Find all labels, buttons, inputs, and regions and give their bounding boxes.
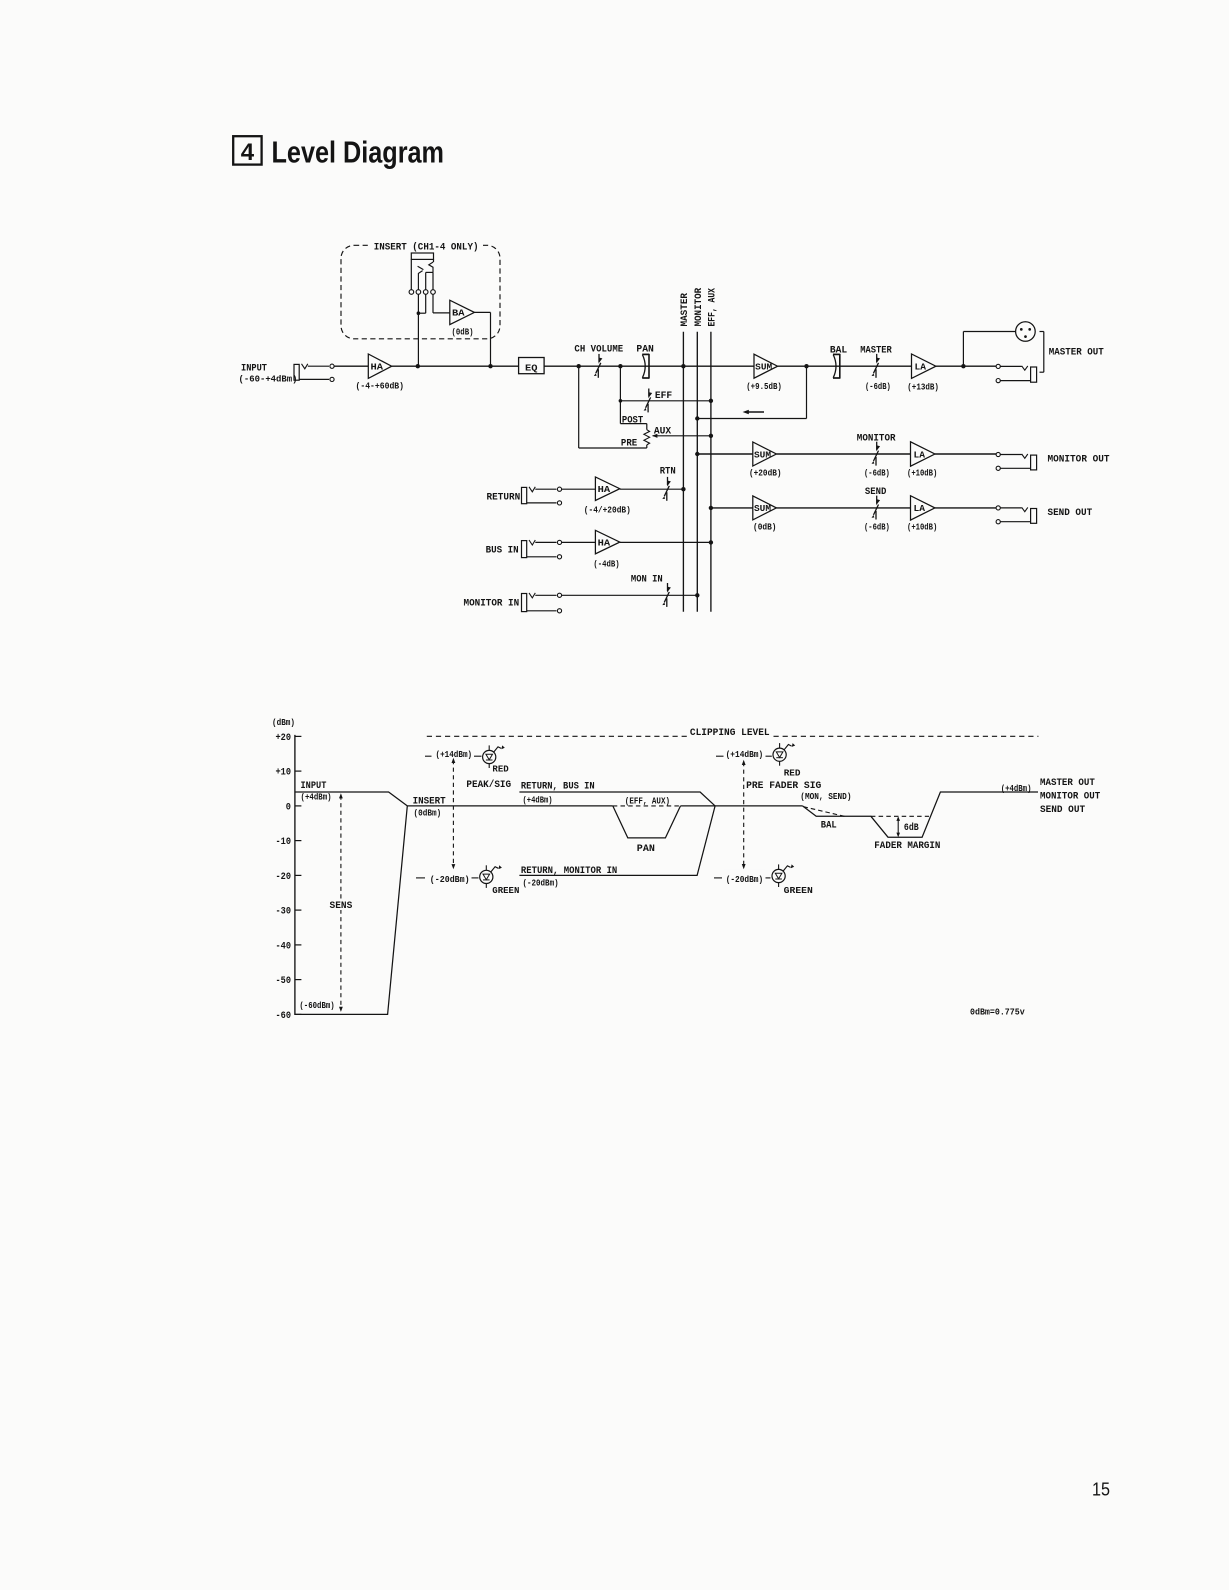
- svg-text:LA: LA: [914, 449, 926, 460]
- node BA return tap: [488, 364, 492, 368]
- svg-text:SEND OUT: SEND OUT: [1048, 508, 1093, 519]
- wire return jack to HA2: [562, 488, 596, 490]
- wire sum2 to monitor fader: [776, 453, 910, 455]
- svg-text:(MON, SEND): (MON, SEND): [800, 792, 851, 802]
- title section number box [4]: [233, 136, 261, 164]
- node monitor in to monitor bus: [695, 593, 699, 597]
- trace RETURN BUS IN +4dBm: [519, 792, 715, 806]
- arrow PRE FADER SIG dashed range: [743, 762, 745, 867]
- pan pot symbol: [642, 355, 645, 378]
- axis tick -20: [295, 874, 302, 876]
- svg-text:RED: RED: [492, 764, 509, 775]
- jack J MONITOR IN: [522, 594, 527, 612]
- wire up to XLR: [962, 332, 964, 367]
- svg-text:PRE FADER SIG: PRE FADER SIG: [746, 781, 821, 792]
- wire AUX wiper to bus: [653, 435, 711, 437]
- svg-text:MASTER OUT: MASTER OUT: [1040, 778, 1095, 789]
- jack J monitor out: [996, 452, 1000, 456]
- op-amp LA1 master line amp: [912, 354, 936, 378]
- node monitor bus to sum2: [695, 452, 699, 456]
- wire BA output down to channel: [474, 311, 490, 313]
- svg-text:(+20dB): (+20dB): [749, 468, 782, 478]
- wire insert send contacts to channel: [417, 294, 419, 366]
- arrow PEAK/SIG dashed range: [452, 760, 454, 867]
- node return to master bus: [681, 487, 685, 491]
- svg-text:4: 4: [241, 139, 255, 166]
- node insert send junction: [417, 311, 421, 315]
- wire sum1 to master fader: [778, 365, 912, 367]
- pot EFF attenuator: [648, 389, 650, 397]
- svg-text:(+10dB): (+10dB): [907, 523, 937, 533]
- svg-text:MASTER: MASTER: [680, 292, 691, 326]
- svg-text:EFF: EFF: [655, 391, 672, 402]
- dashed -20dBm level left: [416, 877, 425, 879]
- axis tick -60: [295, 1013, 302, 1015]
- bus MASTER vertical: [682, 332, 684, 612]
- bracket master out group: [1043, 332, 1045, 373]
- jack J1 INPUT: [294, 364, 299, 380]
- label (-20dBm) right: [724, 870, 766, 880]
- svg-text:CH VOLUME: CH VOLUME: [574, 344, 623, 355]
- svg-text:INSERT (CH1-4 ONLY): INSERT (CH1-4 ONLY): [374, 242, 479, 254]
- svg-text:(0dB): (0dB): [452, 328, 474, 338]
- svg-text:(EFF, AUX): (EFF, AUX): [625, 797, 670, 807]
- node eff aux bus to sum3: [709, 506, 713, 510]
- svg-text:PEAK/SIG: PEAK/SIG: [466, 779, 511, 791]
- svg-text:CLIPPING LEVEL: CLIPPING LEVEL: [690, 728, 770, 739]
- svg-text:RETURN: RETURN: [487, 492, 521, 503]
- svg-text:-50: -50: [276, 976, 292, 987]
- svg-text:-60: -60: [276, 1011, 292, 1022]
- svg-text:SEND: SEND: [865, 487, 887, 498]
- wire eff aux bus to sum3: [711, 507, 753, 509]
- svg-text:+10: +10: [276, 768, 292, 779]
- svg-text:(+4dBm): (+4dBm): [523, 795, 553, 805]
- fader MASTER attenuator: [876, 354, 878, 362]
- wire loop left leg to contact 1: [410, 259, 412, 289]
- svg-text:(-20dBm): (-20dBm): [523, 879, 559, 889]
- svg-text:-20: -20: [276, 872, 292, 883]
- axis tick 0: [295, 805, 302, 807]
- jack J master out phone: [996, 364, 1000, 368]
- svg-text:SEND OUT: SEND OUT: [1040, 805, 1085, 816]
- chart y axis: [294, 735, 296, 1015]
- jack contact circles of insert jack: [409, 290, 414, 295]
- trace BAL drop and fader margin dip: [803, 792, 1039, 837]
- svg-text:+20: +20: [276, 733, 292, 744]
- insert switch contact strokes: [433, 259, 435, 262]
- jack J BUS IN: [522, 541, 527, 558]
- svg-text:(+4dBm): (+4dBm): [301, 792, 332, 802]
- resistor AUX pot: [644, 430, 650, 445]
- svg-text:-10: -10: [276, 837, 292, 848]
- wire input to HA: [334, 365, 368, 367]
- svg-text:(-4-+60dB): (-4-+60dB): [356, 382, 405, 392]
- svg-text:(-4dB): (-4dB): [593, 559, 619, 569]
- node post-fader tap: [618, 364, 622, 368]
- label (EFF, AUX): [623, 794, 673, 804]
- insert loop dashed box: [341, 245, 500, 338]
- svg-text:(-6dB): (-6dB): [865, 382, 891, 392]
- op-amp HA2 return amp: [595, 477, 619, 501]
- dashed EFF AUX 0dBm segment: [613, 805, 681, 807]
- wire PRE line: [578, 366, 580, 448]
- svg-text:PAN: PAN: [637, 844, 655, 855]
- svg-text:GREEN: GREEN: [492, 885, 519, 896]
- bus MONITOR vertical: [696, 332, 698, 612]
- svg-text:(+10dB): (+10dB): [907, 469, 937, 479]
- svg-text:-40: -40: [276, 941, 292, 952]
- axis tick -50: [295, 979, 302, 981]
- wire LA2 to monitor out jack: [935, 453, 996, 455]
- dashed clipping level line: [427, 735, 687, 737]
- svg-text:(+13dB): (+13dB): [907, 382, 939, 392]
- op-amp HA3 bus in amp: [595, 530, 619, 554]
- wire HA2 to RTN pot: [620, 488, 684, 490]
- svg-text:MONITOR OUT: MONITOR OUT: [1048, 455, 1110, 466]
- svg-text:BUS IN: BUS IN: [486, 546, 519, 557]
- svg-text:EQ: EQ: [525, 362, 538, 373]
- wire pre fader signal to monitor bus: [806, 366, 808, 418]
- arrow SENS range dashed: [340, 796, 342, 1010]
- node master out tap: [961, 364, 965, 368]
- fader CH VOLUME attenuator: [598, 354, 600, 362]
- op-amp BA1 insert return buffer: [450, 300, 475, 324]
- axis tick -40: [295, 944, 302, 946]
- dashed -20dBm level right: [714, 877, 722, 879]
- svg-text:PRE: PRE: [621, 439, 637, 450]
- svg-text:(-6dB): (-6dB): [864, 523, 890, 533]
- svg-text:SUM: SUM: [755, 362, 772, 373]
- svg-text:(+14dBm): (+14dBm): [436, 750, 473, 760]
- op-amp HA1 head amp: [368, 354, 391, 378]
- wire insert return contact to BA: [432, 294, 434, 313]
- svg-text:INPUT: INPUT: [301, 781, 327, 792]
- fader SEND attenuator: [876, 496, 878, 504]
- dashed MON SEND bypass: [804, 807, 847, 817]
- svg-text:(-60-+4dBm): (-60-+4dBm): [239, 374, 298, 384]
- svg-text:SUM: SUM: [754, 449, 771, 460]
- axis tick +20: [295, 735, 302, 737]
- op-amp SUM2 monitor sum: [753, 442, 777, 466]
- svg-text:(+4dBm): (+4dBm): [1001, 784, 1032, 794]
- axis tick +10: [295, 770, 302, 772]
- svg-text:BAL: BAL: [821, 821, 837, 832]
- wire bus in jack to HA3: [562, 541, 596, 543]
- svg-text:-30: -30: [276, 907, 292, 918]
- jack J send out: [996, 506, 1000, 510]
- wire sum3 to send fader: [776, 507, 910, 509]
- dashed +14dBm level right: [716, 755, 724, 757]
- svg-text:MON IN: MON IN: [631, 575, 663, 586]
- node pre-fader tap: [577, 364, 581, 368]
- svg-text:MONITOR: MONITOR: [694, 287, 705, 326]
- label (-20dBm) left: [428, 870, 472, 880]
- label (+14dBm) right: [724, 748, 766, 758]
- arrow signal direction left: [747, 411, 764, 413]
- op-amp LA3 send line amp: [911, 496, 935, 520]
- svg-text:0: 0: [286, 802, 291, 813]
- svg-text:SUM: SUM: [754, 503, 771, 514]
- trace RETURN MONITOR IN -20dBm: [519, 806, 715, 876]
- wire eff send to bus: [620, 400, 711, 402]
- svg-text:(-20dBm): (-20dBm): [726, 875, 764, 885]
- svg-text:RED: RED: [784, 767, 801, 778]
- label (+14dBm) left: [434, 748, 474, 758]
- wire post fader down to eff send: [619, 366, 621, 423]
- LED D3 RED pre fader: [779, 743, 781, 748]
- balance pot symbol BAL: [833, 355, 836, 378]
- insert tip-ring loop bar: [411, 253, 433, 259]
- svg-text:HA: HA: [371, 362, 384, 373]
- block EQ: [519, 358, 545, 374]
- LED D4 GREEN pre fader: [778, 864, 780, 869]
- svg-text:GREEN: GREEN: [784, 885, 813, 896]
- wire HA3 to eff aux bus: [620, 541, 711, 543]
- trace input max level +4dBm: [295, 792, 407, 806]
- node insert send tap: [416, 364, 420, 368]
- wire monitor bus to sum2: [697, 453, 753, 455]
- node aux to eff aux bus: [709, 434, 713, 438]
- op-amp SUM1 master sum: [754, 354, 778, 378]
- svg-text:RETURN, BUS IN: RETURN, BUS IN: [521, 782, 595, 793]
- svg-text:RTN: RTN: [660, 467, 676, 478]
- pot RTN attenuator: [667, 477, 669, 485]
- svg-text:6dB: 6dB: [904, 822, 919, 834]
- svg-text:(0dBm): (0dBm): [414, 809, 442, 819]
- trace 0dBm to BAL: [681, 805, 803, 807]
- svg-text:15: 15: [1092, 1478, 1110, 1499]
- svg-text:HA: HA: [598, 484, 611, 495]
- LED D2 GREEN signal: [485, 865, 487, 870]
- wire LA1 to outputs: [936, 365, 996, 367]
- pot MON IN attenuator: [667, 583, 669, 591]
- svg-text:LA: LA: [914, 503, 926, 514]
- svg-text:(+14dBm): (+14dBm): [726, 750, 764, 760]
- node pre master fader tap: [804, 364, 808, 368]
- svg-text:INPUT: INPUT: [241, 364, 267, 375]
- svg-text:0dBm=0.775v: 0dBm=0.775v: [970, 1007, 1025, 1018]
- svg-text:POST: POST: [622, 416, 643, 427]
- LED D1 RED peak: [488, 745, 490, 750]
- node channel to master bus: [681, 364, 685, 368]
- node eff tap: [619, 399, 623, 403]
- svg-text:BA: BA: [452, 308, 465, 319]
- svg-text:HA: HA: [598, 537, 611, 548]
- axis tick -10: [295, 840, 302, 842]
- svg-text:FADER MARGIN: FADER MARGIN: [874, 841, 940, 852]
- fader MONITOR attenuator: [876, 442, 878, 450]
- op-amp LA2 monitor line amp: [911, 442, 935, 466]
- trace channel 0dBm: [407, 805, 613, 807]
- svg-text:Level Diagram: Level Diagram: [272, 134, 445, 169]
- svg-text:MONITOR OUT: MONITOR OUT: [1040, 791, 1100, 802]
- dashed +14dBm level left: [425, 755, 432, 757]
- svg-text:EFF, AUX: EFF, AUX: [708, 287, 719, 326]
- svg-text:LA: LA: [915, 362, 927, 373]
- svg-text:(-20dBm): (-20dBm): [430, 875, 470, 885]
- svg-text:(dBm): (dBm): [272, 718, 295, 728]
- svg-text:MONITOR IN: MONITOR IN: [464, 599, 520, 610]
- node eff to eff aux bus: [709, 399, 713, 403]
- wire EQ to fader: [544, 365, 683, 367]
- trace PAN dip -10dB: [613, 806, 681, 838]
- jack J RETURN: [522, 487, 527, 503]
- op-amp SUM3 send sum: [753, 496, 777, 520]
- wire HA1 to EQ: [392, 365, 519, 367]
- switch POST arm: [620, 423, 646, 425]
- svg-text:(0dB): (0dB): [753, 523, 777, 533]
- node pre fader sig to monitor bus: [695, 416, 699, 420]
- svg-text:(-60dBm): (-60dBm): [299, 1001, 334, 1011]
- wire LA3 to send out jack: [935, 507, 996, 509]
- svg-text:SENS: SENS: [330, 901, 353, 912]
- svg-text:MASTER OUT: MASTER OUT: [1049, 348, 1104, 359]
- svg-text:(+9.5dB): (+9.5dB): [746, 382, 782, 392]
- trace input min level -60dBm: [295, 806, 407, 1015]
- svg-text:(-4/+20dB): (-4/+20dB): [584, 505, 631, 515]
- wire channel across buses to master sum: [683, 365, 754, 367]
- svg-text:(-6dB): (-6dB): [864, 468, 890, 478]
- arrow aux wiper: [652, 434, 657, 438]
- arrow 6dB fader margin: [897, 818, 899, 835]
- connector XLR master out: [1016, 322, 1036, 342]
- node bus in to eff aux bus: [709, 540, 713, 544]
- axis tick -30: [295, 909, 302, 911]
- bus EFF AUX vertical: [710, 332, 712, 612]
- wire below aux pot to pre line: [646, 445, 648, 448]
- svg-text:RETURN, MONITOR IN: RETURN, MONITOR IN: [521, 866, 617, 877]
- dashed fader margin reference: [871, 815, 929, 817]
- wire monitor in jack to pot: [562, 594, 698, 596]
